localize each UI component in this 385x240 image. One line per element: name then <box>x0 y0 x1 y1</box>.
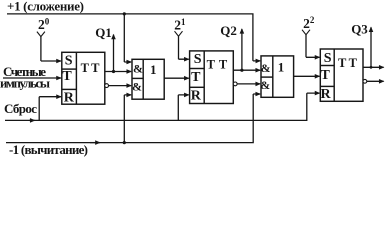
svg-text:1: 1 <box>278 60 285 75</box>
svg-text:R: R <box>191 89 202 104</box>
svg-text:S: S <box>194 52 202 67</box>
svg-text:S: S <box>65 54 73 69</box>
svg-text:Сброс: Сброс <box>4 101 37 116</box>
svg-text:R: R <box>64 90 75 105</box>
svg-text:-1 (вычитание): -1 (вычитание) <box>9 142 88 157</box>
svg-text:T: T <box>191 70 201 85</box>
svg-text:Q1: Q1 <box>95 25 112 40</box>
svg-text:T: T <box>219 58 228 72</box>
svg-text:T: T <box>81 61 90 75</box>
svg-text:&: & <box>260 78 270 92</box>
svg-text:&: & <box>132 80 142 94</box>
svg-text:T: T <box>91 61 100 75</box>
svg-text:1: 1 <box>150 62 157 77</box>
svg-text:&: & <box>261 61 271 75</box>
svg-text:T: T <box>321 68 331 83</box>
svg-text:T: T <box>62 69 72 84</box>
svg-text:импульсы: импульсы <box>0 76 50 91</box>
svg-text:T: T <box>207 58 216 72</box>
svg-text:22: 22 <box>303 15 315 31</box>
svg-text:S: S <box>324 51 332 66</box>
svg-text:T: T <box>338 56 347 70</box>
svg-text:+1 (сложение): +1 (сложение) <box>7 0 84 13</box>
svg-text:R: R <box>320 87 331 102</box>
svg-text:&: & <box>133 61 143 75</box>
svg-text:T: T <box>349 56 358 70</box>
svg-text:21: 21 <box>174 17 186 33</box>
svg-text:20: 20 <box>38 16 50 32</box>
svg-text:Q2: Q2 <box>220 23 237 38</box>
svg-text:Q3: Q3 <box>351 21 368 36</box>
